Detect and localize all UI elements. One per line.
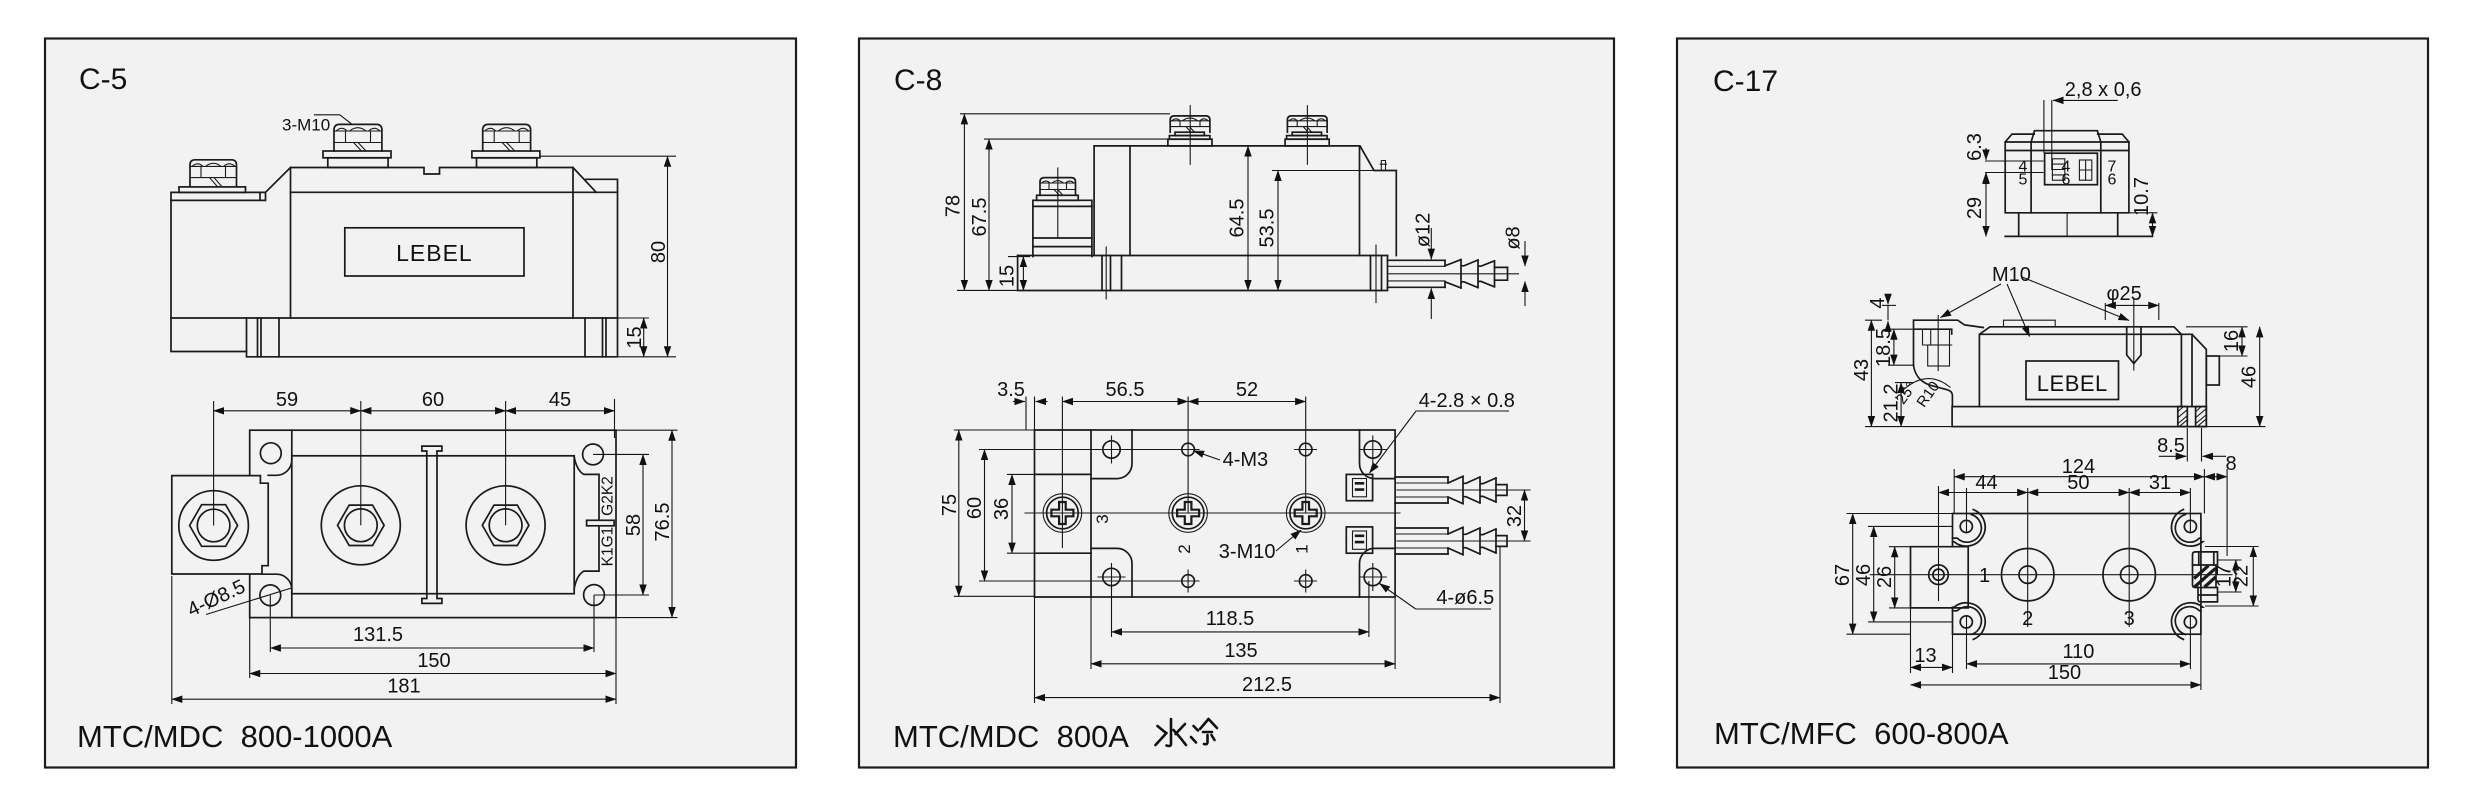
C-5 bottom view: corner hole BR — [584, 585, 605, 606]
svg-text:φ25: φ25 — [2107, 283, 2142, 305]
svg-text:MTC/MDC 800-1000A: MTC/MDC 800-1000A — [77, 719, 393, 754]
C-17 bottom view: dim 124 — [1954, 469, 2204, 514]
panel C-8 frame — [859, 39, 1614, 768]
C-8 side view: left terminal block — [1033, 200, 1092, 256]
C-5 side view: dim 80 line — [667, 156, 669, 357]
C-8 side view: main body — [1094, 146, 1396, 256]
svg-text:G2K2: G2K2 — [600, 476, 617, 516]
svg-text:K1G1: K1G1 — [600, 527, 617, 567]
C-8 side view: dim 78 extensions — [957, 114, 1170, 291]
C-17 side view: dim 16 — [2186, 327, 2248, 356]
C-5 bottom view: corner hole TR — [583, 444, 604, 465]
C-17 side view: stud centerline — [1937, 316, 1939, 371]
C-8 bottom view: corner ears — [1091, 430, 1132, 479]
C-5 bottom view: middle terminal outer circle — [321, 486, 400, 565]
C-8 bottom view: dim 60 — [979, 450, 1180, 582]
C-8 bottom view: M3 hole bottom-right — [1299, 575, 1312, 588]
svg-text:6: 6 — [2108, 172, 2117, 189]
panel C-17 frame — [1677, 39, 2428, 768]
C-5 side view: bolt B1 nut — [190, 160, 237, 187]
svg-text:46: 46 — [1853, 564, 1875, 586]
panel C-5 frame — [45, 39, 796, 768]
C-17 bottom view: dim 110 — [1967, 616, 2191, 669]
C-8 side view: nipple centerline — [1389, 273, 1519, 275]
C-8 bottom view: corner hole TR — [1364, 441, 1381, 458]
C-8 side view: dim 78 line — [963, 114, 965, 291]
C-17 bottom view: tab screw — [1929, 565, 1949, 585]
C-8 side view: dim 64.5 — [1247, 146, 1249, 291]
C-5 bottom view: right terminal outer circle — [466, 486, 545, 565]
C-17 bottom view: dim 26 — [1889, 547, 1911, 608]
C-17 back view: connector window — [2045, 153, 2098, 185]
svg-text:181: 181 — [387, 676, 420, 698]
C-8 bottom view: lower pipe — [1395, 528, 1448, 554]
C-8 bottom view: upper connector block — [1346, 474, 1372, 500]
C-5 side view: body bottom / flange top — [171, 317, 618, 319]
C-8 bottom view: M3 hole top-left — [1182, 443, 1195, 456]
C-17 bottom view: dim 67 — [1847, 514, 1953, 635]
svg-text:67.5: 67.5 — [969, 198, 991, 237]
C-5 side view: shoulder line — [291, 191, 618, 193]
svg-text:M10: M10 — [1992, 264, 2031, 286]
C-17 bottom view: main rect — [1953, 514, 2201, 635]
C-17 bottom view: dim 17 — [2218, 560, 2242, 592]
svg-text:16: 16 — [2221, 330, 2243, 352]
C-5 side view: bolt B2 washer and pedestal — [323, 151, 391, 158]
C-5 side view: dim 80 extension lines — [540, 156, 676, 357]
svg-text:78: 78 — [943, 195, 965, 217]
C-17 bottom view: corner hole TR — [2184, 520, 2196, 532]
C-17 bottom view: horizontal centerline — [1870, 574, 2232, 576]
C-17 side view: connector tab right — [2206, 356, 2219, 385]
C-5 bottom view: middle terminal hex — [338, 505, 385, 545]
svg-text:60: 60 — [964, 497, 986, 519]
C-5 bottom view: dim 45 — [506, 410, 615, 412]
C-5 bottom view: left terminal centerline — [213, 476, 215, 526]
C-17 side view: dim 8.5 — [2187, 428, 2201, 462]
svg-text:59: 59 — [276, 389, 298, 411]
C-8 bottom view: main rect — [1091, 430, 1395, 597]
C-17 bottom view: dim 22 — [2205, 547, 2259, 607]
C-8 bottom view: dim 212.5 — [1035, 547, 1501, 704]
C-17 back view: bottom feet — [2005, 213, 2152, 237]
C-8 bottom view: corner hole TL — [1103, 441, 1120, 458]
C-17 back view: housing verticals — [2031, 142, 2101, 213]
C-8 side view: inner vertical right — [1359, 147, 1361, 256]
svg-text:15: 15 — [997, 265, 1019, 287]
C-5 bottom view: left terminal inner circle — [197, 509, 230, 542]
C-8 bottom view: left extension — [1035, 430, 1092, 597]
C-17 back view: dim 2.8x0.6 — [2053, 99, 2118, 101]
C-17 bottom view: dim 8 top — [2226, 469, 2228, 556]
svg-text:32: 32 — [1504, 505, 1526, 527]
C-17 side view: R10 curve — [1914, 365, 1953, 406]
C-5 bottom view: 4-O8.5 leader — [206, 588, 292, 615]
C-17 back view: dim 29 — [1985, 173, 1987, 237]
svg-text:3-M10: 3-M10 — [1219, 541, 1276, 563]
svg-text:15: 15 — [624, 326, 646, 348]
C-8 side view: top bolt 1 — [1175, 132, 1204, 135]
C-5 bottom view: dim 76.5 — [616, 430, 678, 617]
C-17 side view: hatched foot right — [2196, 407, 2207, 427]
C-17 bottom view: terminal 3 — [2103, 549, 2155, 601]
C-8 side view: top bolt 2 — [1292, 132, 1321, 135]
C-8 side view: nipple barbs — [1445, 260, 1495, 288]
C-5 side view: body left edge — [290, 168, 292, 319]
C-8 bottom view: M3 hole bottom-left — [1182, 575, 1195, 588]
C-17 bottom view: corner hole BL — [1960, 616, 1972, 628]
svg-text:MTC/MFC 600-800A: MTC/MFC 600-800A — [1714, 716, 2009, 751]
C-5 bottom view: top-left ear — [268, 430, 292, 475]
svg-text:2,8 x 0,6: 2,8 x 0,6 — [2065, 79, 2142, 101]
C-8 bottom view: corner hole BL — [1103, 568, 1120, 585]
svg-text:3-M10: 3-M10 — [282, 116, 330, 135]
C-8 bottom view: dim 36 — [1007, 474, 1035, 553]
C-5 side view: LEBEL box — [345, 228, 524, 276]
svg-text:18.5: 18.5 — [1873, 328, 1895, 367]
C-17 back view: raised center — [2031, 131, 2101, 142]
C-5 side view: bolt B3 washer and pedestal — [472, 151, 540, 158]
C-17 back view: band lines — [2005, 142, 2129, 151]
C-5 side view: bolt B3 nut — [483, 124, 531, 151]
svg-text:2: 2 — [1175, 544, 1194, 553]
C-8 bottom view: dim 135 — [1091, 597, 1395, 669]
C-17 side view: hatched foot left — [2178, 407, 2188, 427]
C-17 bottom view: corner hole BR — [2184, 616, 2196, 628]
C-17 side view: dim 21.2 — [1895, 382, 1913, 384]
C-5 bottom view: corner hole TL — [260, 443, 281, 464]
C-17 bottom view: dim row 44/50/31 — [1939, 486, 2191, 627]
C-8 side view: water nipple straight section — [1388, 260, 1446, 287]
C-8 bottom view: horizontal centerline — [1025, 512, 1400, 514]
svg-text:64.5: 64.5 — [1227, 199, 1249, 238]
svg-text:8: 8 — [2225, 453, 2236, 475]
svg-text:4-M3: 4-M3 — [1223, 449, 1269, 471]
C-17 side view: left terminal plate — [1914, 320, 1984, 365]
C-8 bottom view: dim 32 — [1504, 490, 1531, 541]
svg-text:3: 3 — [1093, 514, 1112, 523]
C-17 back view: right terminal block — [2079, 160, 2091, 180]
C-17 bottom view: dim 13 — [1911, 608, 1953, 673]
C-8 bottom view: screw right — [1286, 494, 1325, 533]
C-5 bottom view: right terminal hex — [482, 505, 529, 545]
C-17 back view: dim 10.7 — [2129, 212, 2158, 214]
C-5 side view: 3-M10 leader — [314, 115, 352, 125]
C-5 bottom view: dim 58 — [593, 454, 649, 595]
C-5 bottom view: right terminal inner circle — [489, 509, 522, 542]
C-8 side view: nub on right box — [1380, 161, 1386, 171]
svg-text:1: 1 — [1979, 565, 1990, 587]
C-5 bottom view: inner body rect — [292, 456, 574, 594]
svg-text:8.5: 8.5 — [2157, 435, 2185, 457]
C-5 side view: right ledge — [586, 179, 618, 318]
C-8 bottom view: M3 hole top-right — [1299, 443, 1312, 456]
svg-text:60: 60 — [422, 389, 444, 411]
svg-text:58: 58 — [623, 514, 645, 536]
C-17 bottom view: tab screw centerline — [1938, 548, 1940, 601]
svg-text:2: 2 — [2022, 608, 2033, 630]
C-8 bottom view: dim 118.5 — [1112, 581, 1369, 637]
C-17 back view: pin row lines — [1985, 161, 2044, 173]
C-5 bottom view: left terminal hex — [190, 505, 238, 547]
C-8 bottom view: screw left — [1043, 494, 1082, 533]
C-17 bottom view: terminal 2 — [2002, 549, 2054, 601]
svg-text:135: 135 — [1224, 640, 1257, 662]
C-17 side view: dim 43 — [1865, 320, 1952, 426]
svg-text:4: 4 — [1867, 297, 1889, 308]
C-5 bottom view: dim 181 — [171, 576, 173, 704]
C-5 side view: bolt B2 nut — [334, 124, 382, 151]
C-8 bottom view: corner hole BR — [1364, 568, 1381, 585]
C-17 side view: baseplate — [1952, 407, 2206, 427]
C-5 side view: body right inner edge — [572, 168, 574, 319]
C-17 bottom view: corner hole TL — [1960, 520, 1972, 532]
C-8 side view: dim 67.5 extension — [984, 138, 1168, 140]
C-8 side view: left bolt nut — [1040, 178, 1076, 196]
C-5 bottom view: gate lead tick — [587, 520, 615, 526]
svg-text:6: 6 — [2062, 172, 2071, 189]
svg-text:46: 46 — [2239, 366, 2261, 388]
svg-text:31: 31 — [2149, 472, 2171, 494]
svg-text:118.5: 118.5 — [1206, 608, 1255, 630]
C-5 bottom view: top dim row 59/60/45 extension-centerlines — [214, 399, 615, 526]
C-5 bottom view: left terminal outer circle — [179, 491, 249, 561]
C-17 bottom view: right connector hatched — [2193, 552, 2218, 565]
C-17 side view: body — [1979, 327, 2181, 407]
C-17 side view: dim 18.5 — [1888, 329, 1914, 365]
C-5 side view: dim 15 line — [643, 318, 645, 357]
svg-text:212.5: 212.5 — [1242, 674, 1292, 696]
C-5 bottom view: outer flange plate — [250, 430, 616, 617]
C-8 bottom view: dim 75 — [954, 430, 1035, 596]
C-5 bottom view: middle terminal inner circle — [344, 509, 377, 542]
svg-text:LEBEL: LEBEL — [2037, 371, 2108, 396]
C-17 back view: left terminal ladder — [2052, 159, 2064, 180]
C-5 side view: terminal block body — [171, 200, 247, 351]
svg-text:110: 110 — [2062, 641, 2094, 663]
C-5 bottom view: dim 131.5 — [270, 595, 594, 652]
svg-text:3.5: 3.5 — [997, 379, 1025, 401]
C-5 bottom view: top-right ear and marking strip edge — [574, 457, 599, 589]
svg-text:75: 75 — [939, 494, 961, 516]
svg-text:3: 3 — [2124, 608, 2135, 630]
C-17 side view: 25 degree arc — [1902, 379, 1951, 391]
svg-text:MTC/MDC 800A: MTC/MDC 800A — [893, 719, 1129, 754]
svg-text:6.3: 6.3 — [1964, 133, 1986, 161]
svg-text:LEBEL: LEBEL — [396, 240, 473, 266]
svg-text:C-5: C-5 — [79, 63, 127, 96]
C-8 side view: dim 15 — [1008, 256, 1030, 258]
svg-text:56.5: 56.5 — [1106, 379, 1145, 401]
C-17 side view: right section — [2181, 334, 2206, 406]
svg-text:13: 13 — [1914, 645, 1936, 667]
C-8 side view: left bolt washer — [1037, 195, 1079, 200]
svg-text:4-2.8 × 0.8: 4-2.8 × 0.8 — [1419, 390, 1515, 412]
C-5 bottom view: gate terminal tab — [172, 476, 268, 574]
C-8 bottom view: lower connector block — [1346, 527, 1372, 553]
svg-text:36: 36 — [991, 498, 1013, 520]
svg-text:150: 150 — [417, 650, 450, 672]
svg-text:52: 52 — [1236, 379, 1258, 401]
C-8 side view: inner vertical left — [1129, 146, 1131, 256]
svg-text:4-ø6.5: 4-ø6.5 — [1436, 587, 1494, 609]
C-5 side view: dim 15 extension — [618, 317, 650, 319]
svg-text:67: 67 — [1832, 564, 1854, 586]
C-17 side view: LEBEL box — [2026, 361, 2119, 400]
svg-text:150: 150 — [2048, 662, 2081, 684]
C-5 bottom view: center divider bar — [422, 446, 442, 603]
C-5 side view: module body top and chamfers — [266, 168, 597, 193]
C-8 bottom view: upper pipe — [1395, 477, 1448, 503]
svg-text:29: 29 — [1964, 197, 1986, 219]
C-8 side view: flange centerline ticks — [1106, 245, 1376, 303]
C-17 side view: o25 slot — [2127, 327, 2141, 364]
svg-text:C-8: C-8 — [894, 64, 942, 97]
C-8 bottom view: top dim row 3.5/56.5/52 — [1026, 397, 1306, 549]
svg-text:5: 5 — [2019, 172, 2028, 189]
C-8 side view: left bolt centerline — [1057, 168, 1059, 238]
C-5 bottom view: corner hole BL — [260, 585, 281, 606]
C-17 side view: dim 4 — [1882, 304, 1896, 306]
svg-text:80: 80 — [648, 241, 670, 263]
C-17 back view: blade lines 2.8x0.6 — [2044, 100, 2052, 170]
C-5 side view: terminal block upper plate — [179, 187, 246, 193]
svg-text:21.2: 21.2 — [1881, 384, 1903, 423]
svg-text:131.5: 131.5 — [353, 624, 403, 646]
caption panel 2: glyph shui — [1156, 719, 1187, 746]
C-8 side view: dim 53.5 — [1272, 170, 1374, 172]
svg-text:10.7: 10.7 — [2131, 177, 2153, 216]
C-17 back view: outer box — [2005, 134, 2129, 213]
C-17 back view: dim 6.3 — [1985, 148, 1987, 160]
svg-text:ø8: ø8 — [1503, 226, 1525, 249]
C-17 side view: dim 46 — [2206, 426, 2265, 428]
C-5 bottom view: dim 150 — [250, 618, 616, 704]
C-17 bottom view: dim 150 — [2200, 634, 2202, 690]
svg-text:45: 45 — [549, 389, 571, 411]
svg-text:43: 43 — [1851, 359, 1873, 381]
svg-text:1: 1 — [1293, 544, 1312, 553]
C-17 side view: top tab — [2004, 320, 2056, 327]
caption panel 2: glyph leng — [1191, 719, 1217, 744]
C-17 side view: shoulder line — [1979, 333, 2181, 335]
svg-text:50: 50 — [2067, 472, 2089, 494]
C-5 side view: flange — [247, 318, 618, 357]
C-5 bottom view: dim 59 — [214, 410, 361, 412]
svg-text:22: 22 — [2231, 565, 2253, 587]
C-5 bottom view: bottom-left ear — [262, 574, 292, 617]
C-5 side view: terminal block lower plate — [171, 192, 266, 200]
C-5 bottom view: dim 60 — [361, 410, 506, 412]
C-17 bottom view: dim 46 — [1868, 526, 1953, 622]
svg-text:53.5: 53.5 — [1257, 209, 1279, 248]
svg-text:26: 26 — [1874, 566, 1896, 588]
C-8 side view: flange — [1018, 256, 1388, 291]
svg-text:44: 44 — [1975, 472, 1997, 494]
svg-text:C-17: C-17 — [1713, 65, 1778, 98]
C-17 bottom view: left tab — [1911, 547, 1969, 608]
svg-text:76.5: 76.5 — [652, 503, 674, 542]
C-8 side view: nipple tip — [1445, 260, 1508, 287]
C-8 bottom view: screw middle — [1169, 494, 1208, 533]
C-17 side view: terminal screw parts — [1923, 329, 1952, 345]
